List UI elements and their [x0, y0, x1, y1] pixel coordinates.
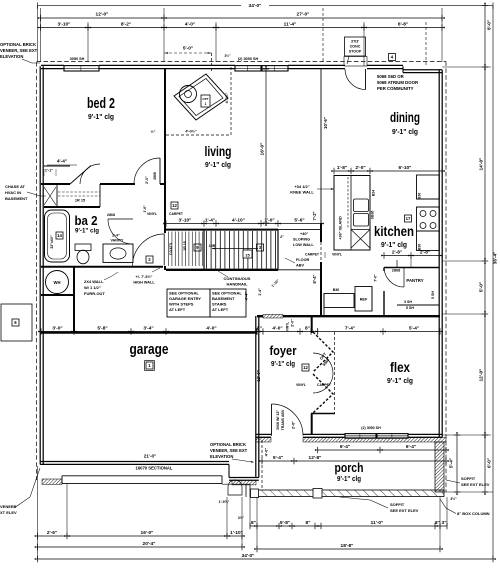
- svg-text:2'-0": 2'-0": [291, 319, 295, 327]
- svg-text:7'-6": 7'-6": [374, 274, 378, 282]
- svg-text:5'-8": 5'-8": [280, 520, 290, 526]
- svg-text:3½": 3½": [225, 54, 231, 58]
- svg-text:4'-4": 4'-4": [57, 159, 67, 165]
- svg-text:21'-0": 21'-0": [144, 454, 156, 459]
- svg-text:FLOOR: FLOOR: [296, 258, 310, 262]
- svg-text:+40": +40": [300, 232, 308, 236]
- svg-text:ABV: ABV: [296, 264, 304, 268]
- svg-text:2868: 2868: [153, 172, 157, 180]
- svg-text:5'-0": 5'-0": [183, 46, 193, 52]
- svg-text:REF: REF: [360, 298, 368, 302]
- svg-text:16'-0": 16'-0": [141, 530, 154, 536]
- svg-text:2X4 WALL: 2X4 WALL: [84, 279, 104, 284]
- svg-text:6'-8": 6'-8": [398, 21, 408, 27]
- svg-text:HANDRAIL: HANDRAIL: [227, 282, 248, 287]
- svg-text:STAIRS: STAIRS: [212, 302, 227, 307]
- svg-text:½": ½": [151, 130, 156, 134]
- svg-text:SEE OPTIONAL: SEE OPTIONAL: [169, 291, 199, 296]
- svg-text:5'-0": 5'-0": [478, 282, 484, 292]
- svg-text:STOOP: STOOP: [349, 50, 362, 54]
- svg-text:14: 14: [57, 233, 62, 238]
- svg-text:8": 8": [251, 520, 256, 526]
- svg-text:VINYL: VINYL: [296, 383, 306, 387]
- svg-text:garage: garage: [130, 341, 169, 358]
- svg-text:VINYL: VINYL: [286, 322, 290, 331]
- svg-text:7'-2": 7'-2": [312, 211, 317, 220]
- svg-text:4'-0": 4'-0": [206, 325, 216, 331]
- svg-text:3'-10": 3'-10": [179, 217, 192, 223]
- svg-text:3'-0": 3'-0": [52, 325, 62, 331]
- svg-text:11'-0": 11'-0": [371, 520, 384, 526]
- svg-text:34'-0": 34'-0": [242, 553, 255, 559]
- svg-text:8": 8": [306, 520, 311, 526]
- svg-text:20'-4": 20'-4": [143, 541, 156, 547]
- svg-text:34'-0": 34'-0": [249, 3, 262, 9]
- svg-text:SEE EXT ELEV: SEE EXT ELEV: [461, 482, 490, 487]
- svg-text:3": 3": [442, 520, 447, 526]
- svg-text:2868: 2868: [392, 269, 400, 273]
- svg-text:16070 SECTIONAL: 16070 SECTIONAL: [135, 466, 172, 471]
- svg-text:1R 15: 1R 15: [75, 199, 85, 203]
- svg-text:27'-0": 27'-0": [297, 12, 310, 18]
- svg-text:dining: dining: [390, 109, 420, 125]
- svg-text:6'-4": 6'-4": [312, 274, 317, 283]
- svg-text:AT LEFT: AT LEFT: [169, 307, 186, 312]
- svg-text:1'-4": 1'-4": [258, 288, 262, 296]
- svg-text:9'-1" clg: 9'-1" clg: [381, 240, 407, 249]
- svg-text:8": 8": [257, 325, 262, 331]
- svg-text:2'-8": 2'-8": [392, 249, 402, 255]
- svg-text:5068 ATRIUM DOOR: 5068 ATRIUM DOOR: [377, 80, 419, 85]
- svg-text:FURR-OUT: FURR-OUT: [84, 291, 105, 296]
- svg-text:12'-0": 12'-0": [96, 12, 109, 18]
- svg-text:1'-4": 1'-4": [205, 217, 215, 223]
- svg-text:3'-4": 3'-4": [143, 325, 153, 331]
- svg-text:32"x60": 32"x60": [50, 235, 54, 249]
- svg-text:OPT: OPT: [202, 97, 208, 101]
- svg-text:+/- 7'-5½": +/- 7'-5½": [136, 275, 153, 279]
- svg-text:HVAC IN: HVAC IN: [5, 190, 21, 195]
- svg-text:1R 15: 1R 15: [183, 241, 187, 251]
- svg-text:bed 2: bed 2: [87, 95, 115, 112]
- svg-text:10'-6": 10'-6": [323, 117, 328, 129]
- svg-text:16'-0": 16'-0": [259, 143, 265, 156]
- svg-text:6'-4": 6'-4": [340, 444, 350, 450]
- svg-text:CARPET: CARPET: [169, 212, 184, 216]
- svg-text:9'-1" clg: 9'-1" clg: [88, 112, 114, 121]
- svg-text:12'-0": 12'-0": [256, 370, 261, 381]
- svg-text:4'-0": 4'-0": [272, 325, 282, 331]
- svg-text:1'-9¾": 1'-9¾": [219, 500, 230, 504]
- svg-text:1'-1": 1'-1": [45, 169, 53, 173]
- svg-text:4'-0": 4'-0": [264, 448, 269, 457]
- svg-text:4'-10": 4'-10": [232, 217, 245, 223]
- svg-text:11'-4": 11'-4": [284, 21, 297, 27]
- svg-text:ba 2: ba 2: [75, 213, 98, 228]
- svg-text:BASEMENT: BASEMENT: [5, 196, 28, 201]
- svg-text:B36: B36: [418, 244, 422, 250]
- svg-text:CHASE AT: CHASE AT: [5, 184, 26, 189]
- svg-text:12'-8": 12'-8": [309, 455, 322, 461]
- svg-text:8": 8": [305, 325, 310, 331]
- svg-text:3½": 3½": [238, 516, 245, 520]
- svg-text:9'-1" clg: 9'-1" clg: [271, 359, 295, 368]
- svg-text:2'-0": 2'-0": [292, 421, 296, 429]
- svg-text:8'-0": 8'-0": [487, 20, 492, 30]
- svg-text:OPTIONAL BRICK: OPTIONAL BRICK: [210, 442, 246, 447]
- svg-text:8'-2": 8'-2": [121, 21, 131, 27]
- svg-text:3050 SH: 3050 SH: [70, 57, 85, 61]
- svg-text:WITH STEPS: WITH STEPS: [169, 302, 194, 307]
- svg-text:6'-10": 6'-10": [399, 165, 412, 171]
- svg-text:(2) 3050 SH: (2) 3050 SH: [361, 426, 381, 430]
- svg-text:18'-8": 18'-8": [341, 543, 354, 549]
- svg-text:14'-0": 14'-0": [478, 158, 484, 171]
- svg-text:(2) 3050 SH: (2) 3050 SH: [238, 57, 259, 61]
- svg-text:12'-0": 12'-0": [478, 369, 484, 382]
- svg-text:flex: flex: [390, 359, 410, 375]
- svg-text:5'-8": 5'-8": [97, 325, 107, 331]
- svg-text:living: living: [205, 143, 232, 159]
- svg-text:4'-0½": 4'-0½": [185, 129, 197, 133]
- svg-text:HIGH WALL: HIGH WALL: [133, 281, 155, 285]
- svg-text:VINYL: VINYL: [332, 253, 342, 257]
- svg-text:15: 15: [245, 252, 250, 257]
- svg-text:6'-0": 6'-0": [487, 458, 492, 468]
- svg-text:3½": 3½": [450, 497, 457, 501]
- svg-text:PER COMMUNITY: PER COMMUNITY: [377, 86, 414, 91]
- svg-text:3068 W/ 12": 3068 W/ 12": [276, 410, 280, 430]
- svg-text:SOFFIT: SOFFIT: [390, 502, 405, 507]
- svg-text:foyer: foyer: [270, 343, 297, 358]
- svg-text:9'-1" clg: 9'-1" clg: [205, 160, 231, 169]
- svg-text:9'-1" clg: 9'-1" clg: [75, 228, 99, 235]
- svg-text:4'-0½": 4'-0½": [225, 92, 229, 103]
- svg-text:9'-1" clg: 9'-1" clg: [337, 474, 361, 483]
- svg-text:TRANS ABV: TRANS ABV: [281, 409, 285, 430]
- svg-text:12: 12: [172, 203, 177, 208]
- svg-text:2868: 2868: [107, 213, 115, 217]
- svg-text:AT LEFT: AT LEFT: [212, 307, 229, 312]
- svg-text:CARPET: CARPET: [305, 253, 320, 257]
- svg-text:8" BOX COLUMN: 8" BOX COLUMN: [457, 511, 490, 516]
- svg-text:2'-8": 2'-8": [420, 249, 430, 255]
- svg-text:2'-6": 2'-6": [47, 530, 57, 536]
- svg-text:VENEER: VENEER: [0, 504, 17, 509]
- svg-text:B36: B36: [418, 193, 422, 199]
- svg-text:+36" ISLAND: +36" ISLAND: [339, 216, 343, 240]
- svg-text:OPTIONAL BRICK: OPTIONAL BRICK: [0, 42, 36, 47]
- svg-text:2": 2": [280, 235, 284, 239]
- svg-text:3'X3': 3'X3': [351, 40, 359, 44]
- svg-text:3'-10": 3'-10": [58, 21, 71, 27]
- svg-text:36'-4": 36'-4": [493, 252, 498, 264]
- svg-text:9'-1" clg: 9'-1" clg: [392, 127, 418, 136]
- svg-text:2'-0": 2'-0": [145, 176, 149, 184]
- svg-text:GARAGE ENTRY: GARAGE ENTRY: [169, 296, 201, 301]
- svg-text:SB36: SB36: [371, 211, 375, 220]
- svg-text:6'-4": 6'-4": [406, 444, 416, 450]
- svg-text:WH: WH: [54, 280, 61, 285]
- svg-text:7'-4": 7'-4": [345, 325, 355, 331]
- svg-text:B36: B36: [333, 288, 340, 292]
- svg-text:3 SH: 3 SH: [404, 300, 412, 304]
- svg-text:W/ 1 1/2": W/ 1 1/2": [84, 285, 101, 290]
- svg-text:VENEER, SEE EXT: VENEER, SEE EXT: [210, 448, 248, 453]
- svg-text:COATS: COATS: [169, 242, 173, 255]
- svg-text:1'-10": 1'-10": [230, 530, 243, 536]
- svg-text:1'-8": 1'-8": [337, 165, 347, 171]
- svg-text:VINYL: VINYL: [147, 212, 157, 216]
- svg-text:LOW WALL: LOW WALL: [293, 243, 314, 247]
- svg-text:5'-6": 5'-6": [294, 217, 304, 223]
- svg-text:ELEVATION: ELEVATION: [0, 54, 23, 59]
- svg-text:kitchen: kitchen: [374, 223, 414, 239]
- svg-text:XT ELEV: XT ELEV: [0, 510, 17, 515]
- svg-text:5 SH: 5 SH: [431, 291, 435, 299]
- svg-text:5'-4": 5'-4": [449, 458, 455, 468]
- svg-text:VENEER, SEE EXT: VENEER, SEE EXT: [0, 48, 38, 53]
- svg-text:B24: B24: [372, 190, 376, 196]
- svg-text:9'-1" clg: 9'-1" clg: [387, 376, 413, 385]
- svg-text:porch: porch: [335, 460, 364, 475]
- svg-text:5'-4": 5'-4": [409, 325, 419, 331]
- svg-text:5068 S6D OR: 5068 S6D OR: [377, 74, 405, 79]
- svg-text:ELEVATION: ELEVATION: [210, 454, 233, 459]
- svg-text:8": 8": [435, 520, 440, 526]
- svg-text:5 SH: 5 SH: [406, 306, 414, 310]
- svg-text:CONC: CONC: [350, 45, 361, 49]
- svg-text:17: 17: [406, 216, 411, 221]
- svg-text:CARPET: CARPET: [317, 383, 332, 387]
- svg-text:4'-0": 4'-0": [185, 21, 195, 27]
- svg-text:15R: 15R: [209, 244, 216, 248]
- svg-text:5'-4": 5'-4": [273, 455, 283, 461]
- svg-text:KNEE WALL: KNEE WALL: [290, 190, 314, 195]
- svg-text:12: 12: [303, 365, 308, 370]
- svg-text:SEE OPTIONAL: SEE OPTIONAL: [212, 291, 242, 296]
- svg-text:BASEMENT: BASEMENT: [212, 296, 235, 301]
- svg-text:+34 1/2": +34 1/2": [294, 184, 309, 189]
- svg-text:PANTRY: PANTRY: [406, 278, 423, 283]
- svg-text:SOFFIT: SOFFIT: [461, 476, 476, 481]
- svg-text:1'-6": 1'-6": [143, 205, 147, 213]
- svg-text:1: 1: [205, 102, 207, 106]
- svg-text:SEE EXT ELEV: SEE EXT ELEV: [390, 508, 419, 513]
- svg-text:2'-0": 2'-0": [355, 165, 365, 171]
- svg-text:SLOPING: SLOPING: [293, 238, 310, 242]
